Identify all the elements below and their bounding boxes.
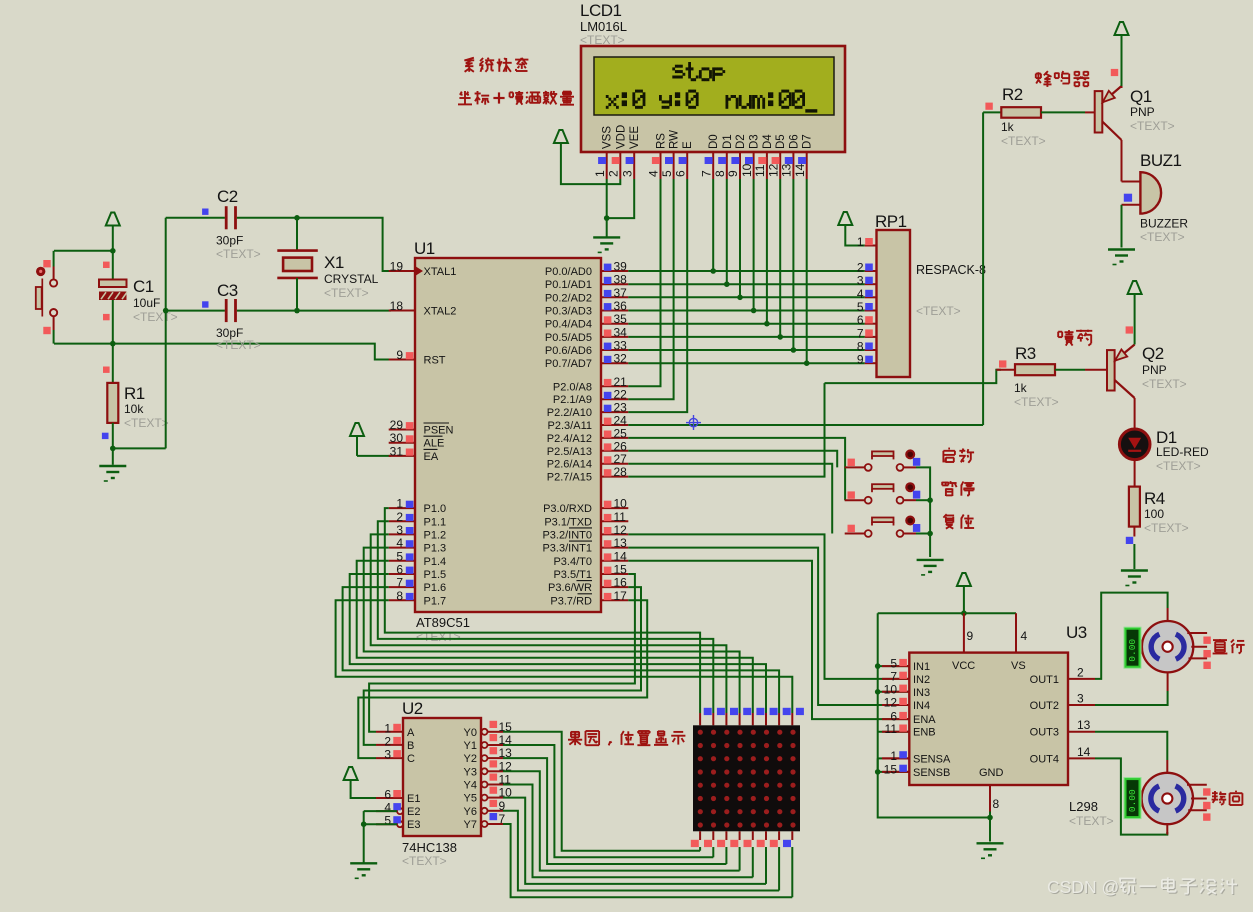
svg-text:10k: 10k (124, 402, 144, 416)
svg-text:3: 3 (1077, 692, 1084, 706)
svg-text:27: 27 (614, 452, 628, 466)
svg-text:RST: RST (424, 355, 446, 367)
svg-text:P1.3: P1.3 (424, 543, 447, 555)
svg-text:<TEXT>: <TEXT> (402, 854, 447, 868)
svg-text:29: 29 (390, 418, 404, 432)
svg-text:30: 30 (390, 431, 404, 445)
svg-text:<TEXT>: <TEXT> (1069, 814, 1114, 828)
svg-text:RW: RW (669, 130, 681, 149)
svg-text:1: 1 (396, 497, 403, 511)
svg-text:23: 23 (614, 401, 628, 415)
svg-text:U3: U3 (1066, 623, 1087, 642)
svg-text:<TEXT>: <TEXT> (1001, 134, 1046, 148)
svg-text:2: 2 (607, 170, 621, 177)
svg-text:38: 38 (614, 273, 628, 287)
svg-text:P1.5: P1.5 (424, 569, 447, 581)
svg-text:33: 33 (614, 339, 628, 353)
svg-text:1: 1 (593, 170, 607, 177)
svg-text:9: 9 (967, 629, 974, 643)
svg-text:15: 15 (884, 762, 898, 776)
svg-text:6: 6 (396, 563, 403, 577)
svg-text:19: 19 (390, 260, 404, 274)
svg-text:P0.3/AD3: P0.3/AD3 (545, 306, 592, 318)
svg-text:SENSB: SENSB (913, 767, 950, 779)
svg-text:<TEXT>: <TEXT> (216, 247, 261, 261)
svg-text:P3.6/WR: P3.6/WR (548, 582, 592, 594)
svg-text:Y6: Y6 (464, 806, 477, 818)
svg-text:P2.2/A10: P2.2/A10 (547, 407, 592, 419)
svg-text:<TEXT>: <TEXT> (1130, 119, 1175, 133)
svg-text:P0.1/AD1: P0.1/AD1 (545, 279, 592, 291)
svg-text:6: 6 (673, 170, 687, 177)
svg-text:P1.1: P1.1 (424, 516, 447, 528)
svg-text:9: 9 (857, 353, 864, 367)
svg-text:P0.0/AD0: P0.0/AD0 (545, 266, 592, 278)
svg-text:Q2: Q2 (1142, 344, 1164, 363)
svg-text:OUT4: OUT4 (1030, 753, 1059, 765)
svg-text:P3.3/INT1: P3.3/INT1 (542, 543, 592, 555)
svg-text:P1.0: P1.0 (424, 503, 447, 515)
svg-text:<TEXT>: <TEXT> (133, 310, 178, 324)
svg-text:P0.6/AD6: P0.6/AD6 (545, 345, 592, 357)
svg-text:5: 5 (857, 300, 864, 314)
svg-text:SENSA: SENSA (913, 753, 951, 765)
svg-text:Y5: Y5 (464, 793, 477, 805)
svg-text:7: 7 (890, 669, 897, 683)
svg-text:<TEXT>: <TEXT> (1014, 395, 1059, 409)
svg-text:17: 17 (614, 589, 628, 603)
svg-text:35: 35 (614, 312, 628, 326)
svg-text:5: 5 (396, 549, 403, 563)
svg-text:P2.3/A11: P2.3/A11 (548, 420, 592, 432)
svg-text:10: 10 (614, 497, 628, 511)
svg-text:P2.6/A14: P2.6/A14 (547, 459, 592, 471)
svg-text:1k: 1k (1001, 120, 1015, 134)
svg-text:E2: E2 (407, 806, 420, 818)
svg-text:3: 3 (396, 523, 403, 537)
svg-text:3: 3 (857, 274, 864, 288)
svg-text:CSDN @: CSDN @ (1047, 877, 1119, 897)
svg-text:26: 26 (614, 439, 628, 453)
svg-text:2: 2 (396, 510, 403, 524)
svg-text:4: 4 (384, 801, 391, 815)
svg-text:6: 6 (857, 313, 864, 327)
svg-text:3: 3 (620, 170, 634, 177)
svg-text:9: 9 (396, 348, 403, 362)
svg-text:PNP: PNP (1130, 105, 1155, 119)
svg-text:4: 4 (647, 170, 661, 177)
svg-text:7: 7 (699, 170, 713, 177)
svg-text:D7: D7 (802, 134, 814, 149)
svg-text:<TEXT>: <TEXT> (1140, 230, 1185, 244)
svg-text:21: 21 (614, 375, 628, 389)
svg-text:8: 8 (857, 340, 864, 354)
svg-text:P2.1/A9: P2.1/A9 (553, 394, 592, 406)
svg-text:VSS: VSS (602, 126, 614, 149)
svg-text:C: C (407, 753, 415, 765)
svg-text:8: 8 (993, 797, 1000, 811)
svg-text:EA: EA (424, 451, 439, 463)
svg-text:P1.6: P1.6 (424, 582, 447, 594)
svg-text:11: 11 (885, 722, 898, 736)
svg-text:<TEXT>: <TEXT> (1156, 459, 1201, 473)
svg-text:P3.0/RXD: P3.0/RXD (543, 503, 592, 515)
svg-text:4: 4 (396, 536, 403, 550)
svg-text:13: 13 (614, 536, 628, 550)
svg-text:R3: R3 (1015, 344, 1036, 363)
svg-text:ALE: ALE (424, 438, 445, 450)
svg-text:AT89C51: AT89C51 (416, 615, 470, 630)
svg-text:BUZ1: BUZ1 (1140, 151, 1182, 170)
svg-text:0.00: 0.00 (1127, 789, 1138, 812)
svg-text:IN4: IN4 (913, 700, 930, 712)
svg-text:24: 24 (614, 414, 628, 428)
svg-text:4: 4 (1021, 629, 1028, 643)
svg-text:10: 10 (884, 682, 898, 696)
svg-text:E3: E3 (407, 819, 420, 831)
svg-text:R1: R1 (124, 384, 145, 403)
svg-text:D5: D5 (775, 134, 787, 149)
svg-text:12: 12 (614, 523, 628, 537)
svg-text:P1.7: P1.7 (424, 595, 447, 607)
svg-text:10uF: 10uF (133, 296, 160, 310)
svg-text:<TEXT>: <TEXT> (324, 286, 369, 300)
svg-text:Y2: Y2 (464, 753, 477, 765)
svg-text:D0: D0 (708, 134, 720, 149)
svg-text:8: 8 (396, 589, 403, 603)
svg-text:10: 10 (740, 163, 754, 177)
svg-text:Y4: Y4 (464, 780, 477, 792)
svg-text:P3.5/T1: P3.5/T1 (553, 569, 592, 581)
svg-text:<TEXT>: <TEXT> (1144, 521, 1189, 535)
svg-text:P3.1/TXD: P3.1/TXD (544, 516, 592, 528)
svg-text:X1: X1 (324, 253, 344, 272)
svg-text:IN2: IN2 (913, 674, 930, 686)
svg-text:7: 7 (396, 576, 403, 590)
svg-text:1: 1 (857, 235, 864, 249)
svg-text:4: 4 (857, 287, 864, 301)
svg-text:B: B (407, 740, 414, 752)
svg-text:16: 16 (614, 576, 628, 590)
svg-text:OUT2: OUT2 (1030, 700, 1059, 712)
svg-text:C2: C2 (217, 187, 238, 206)
svg-text:P3.4/T0: P3.4/T0 (553, 556, 592, 568)
svg-text:39: 39 (614, 260, 628, 274)
svg-text:BUZZER: BUZZER (1140, 217, 1188, 231)
svg-text:5: 5 (384, 814, 391, 828)
svg-text:Y1: Y1 (464, 740, 477, 752)
svg-text:IN1: IN1 (913, 661, 930, 673)
svg-text:R2: R2 (1002, 85, 1023, 104)
svg-text:U1: U1 (414, 239, 435, 258)
svg-text:RP1: RP1 (875, 212, 907, 231)
svg-text:2: 2 (857, 261, 864, 275)
svg-text:6: 6 (384, 788, 391, 802)
svg-text:OUT3: OUT3 (1030, 727, 1059, 739)
svg-text:2: 2 (1077, 665, 1084, 679)
svg-text:U2: U2 (402, 699, 423, 718)
svg-text:5: 5 (660, 170, 674, 177)
svg-text:8: 8 (713, 170, 727, 177)
svg-text:1: 1 (384, 721, 391, 735)
svg-text:<TEXT>: <TEXT> (916, 304, 961, 318)
svg-text:34: 34 (614, 325, 628, 339)
svg-text:D6: D6 (788, 134, 800, 149)
svg-text:30pF: 30pF (216, 234, 243, 248)
svg-text:32: 32 (614, 352, 628, 366)
svg-text:A: A (407, 727, 415, 739)
svg-text:1k: 1k (1014, 381, 1028, 395)
svg-text:VS: VS (1011, 660, 1026, 672)
svg-text:LCD1: LCD1 (580, 1, 622, 20)
svg-text:PNP: PNP (1142, 363, 1167, 377)
svg-text:7: 7 (857, 326, 864, 340)
svg-text:1: 1 (890, 749, 897, 763)
svg-text:15: 15 (614, 563, 628, 577)
svg-text:CRYSTAL: CRYSTAL (324, 272, 379, 286)
svg-text:11: 11 (753, 164, 767, 177)
svg-text:P0.5/AD5: P0.5/AD5 (545, 332, 592, 344)
svg-text:18: 18 (390, 299, 404, 313)
svg-text:2: 2 (384, 734, 391, 748)
svg-text:D1: D1 (722, 134, 734, 149)
svg-text:ENB: ENB (913, 727, 936, 739)
svg-text:D4: D4 (762, 134, 774, 149)
svg-text:Q1: Q1 (1130, 87, 1152, 106)
svg-text:0.00: 0.00 (1127, 639, 1138, 662)
svg-text:D3: D3 (749, 134, 761, 149)
svg-text:RS: RS (656, 133, 668, 149)
svg-text:P3.2/INT0: P3.2/INT0 (542, 529, 592, 541)
svg-text:P1.2: P1.2 (424, 529, 447, 541)
svg-text:LM016L: LM016L (580, 19, 627, 34)
svg-text:<TEXT>: <TEXT> (216, 338, 261, 352)
svg-text:14: 14 (1077, 745, 1091, 759)
svg-text:Y7: Y7 (464, 819, 477, 831)
svg-text:LED-RED: LED-RED (1156, 445, 1209, 459)
svg-text:C3: C3 (217, 281, 238, 300)
svg-text:36: 36 (614, 299, 628, 313)
svg-text:RESPACK-8: RESPACK-8 (916, 263, 986, 277)
svg-text:VCC: VCC (952, 660, 975, 672)
svg-text:28: 28 (614, 465, 628, 479)
svg-text:100: 100 (1144, 507, 1164, 521)
svg-text:OUT1: OUT1 (1030, 674, 1059, 686)
svg-text:13: 13 (780, 163, 794, 177)
svg-text:<TEXT>: <TEXT> (1142, 377, 1187, 391)
svg-text:25: 25 (614, 426, 628, 440)
svg-text:P0.7/AD7: P0.7/AD7 (545, 358, 592, 370)
svg-text:D2: D2 (735, 134, 747, 149)
svg-text:37: 37 (614, 286, 628, 300)
svg-text:3: 3 (384, 748, 391, 762)
svg-text:IN3: IN3 (913, 687, 930, 699)
svg-text:31: 31 (390, 444, 404, 458)
svg-text:P2.5/A13: P2.5/A13 (547, 446, 592, 458)
svg-text:R4: R4 (1144, 489, 1165, 508)
svg-text:22: 22 (614, 388, 628, 402)
svg-text:Y0: Y0 (464, 727, 477, 739)
svg-text:<TEXT>: <TEXT> (124, 416, 169, 430)
svg-text:PSEN: PSEN (424, 425, 454, 437)
svg-text:13: 13 (1077, 718, 1091, 732)
svg-text:P2.7/A15: P2.7/A15 (547, 472, 592, 484)
svg-text:XTAL1: XTAL1 (424, 266, 457, 278)
svg-text:11: 11 (614, 510, 627, 524)
svg-text:74HC138: 74HC138 (402, 840, 457, 855)
svg-text:P1.4: P1.4 (424, 556, 447, 568)
svg-text:VEE: VEE (629, 126, 641, 149)
svg-text:12: 12 (766, 163, 780, 177)
svg-text:P2.0/A8: P2.0/A8 (553, 381, 592, 393)
svg-text:14: 14 (793, 163, 807, 177)
svg-text:VDD: VDD (615, 125, 627, 149)
svg-text:ENA: ENA (913, 714, 936, 726)
svg-text:9: 9 (726, 170, 740, 177)
svg-text:P0.4/AD4: P0.4/AD4 (545, 319, 592, 331)
svg-text:C1: C1 (133, 277, 154, 296)
svg-text:E1: E1 (407, 793, 420, 805)
svg-text:P2.4/A12: P2.4/A12 (547, 433, 592, 445)
svg-text:14: 14 (614, 549, 628, 563)
svg-text:XTAL2: XTAL2 (424, 306, 457, 318)
svg-text:P3.7/RD: P3.7/RD (550, 595, 592, 607)
svg-text:Y3: Y3 (464, 766, 477, 778)
svg-text:P0.2/AD2: P0.2/AD2 (545, 292, 592, 304)
svg-text:12: 12 (884, 696, 898, 710)
svg-text:L298: L298 (1069, 799, 1098, 814)
svg-text:GND: GND (979, 767, 1004, 779)
svg-text:E: E (682, 141, 694, 149)
